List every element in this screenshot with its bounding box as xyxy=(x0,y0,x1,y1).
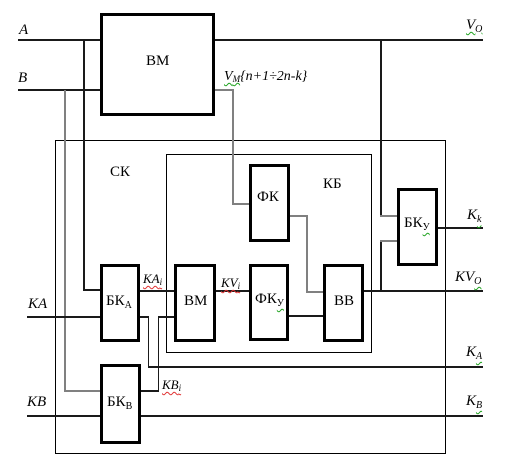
label KV left xyxy=(27,395,46,410)
label Vo xyxy=(466,18,482,33)
label VM lower xyxy=(184,294,207,309)
wire FK stub into VV (gray) xyxy=(306,291,324,293)
label KVbi xyxy=(162,378,181,391)
wire B stub into BKv (gray) xyxy=(64,390,101,392)
label KB xyxy=(323,177,342,192)
wire Vo output horizontal xyxy=(214,39,483,41)
wire FK output horizontal (gray) xyxy=(288,215,307,217)
label Kk xyxy=(467,208,481,223)
wire stub into BKu lower (gray) xyxy=(380,240,398,242)
wire KAi from BKa to VM xyxy=(140,290,175,292)
label Kv right xyxy=(466,394,482,409)
block FKu xyxy=(249,264,289,341)
label A xyxy=(19,23,28,38)
label VV xyxy=(334,294,354,309)
box KB (inner box) xyxy=(166,154,372,353)
wire B vertical drop x64 (gray) xyxy=(64,90,66,391)
label KVo xyxy=(455,270,481,285)
wire FK output vertical x306 (gray) xyxy=(306,215,308,292)
label BKu xyxy=(404,216,430,231)
box SK (outer control box) xyxy=(55,140,446,454)
label FKu xyxy=(255,292,284,307)
wire KVo junction vertical x380 lower xyxy=(380,240,382,292)
block BKa xyxy=(100,264,140,342)
wire KVo output horizontal xyxy=(362,290,483,292)
block BKv xyxy=(100,364,141,444)
block BKu xyxy=(397,188,438,266)
wire A stub into BKa xyxy=(83,289,101,291)
label BKa xyxy=(106,294,132,309)
wire VM output to FK: horizontal from BM (gray) xyxy=(214,89,233,91)
wire vertical x148 down to Ka line xyxy=(148,316,150,367)
label KVi xyxy=(221,276,240,289)
wire KA input horizontal xyxy=(27,316,101,318)
wire Ka output long horizontal xyxy=(148,366,483,368)
wire B input horizontal xyxy=(18,89,100,91)
wire A input horizontal xyxy=(18,39,100,41)
label BKv xyxy=(107,395,132,410)
label B xyxy=(18,71,27,86)
wire KVi_b vertical x158 from VM input down to BKv xyxy=(158,316,160,391)
label Ka right xyxy=(466,345,482,360)
wire KVb from BKv right edge xyxy=(140,390,159,392)
wire Vo junction vertical x380 to BKu xyxy=(380,40,382,216)
wire BKa lower output stub xyxy=(140,316,149,318)
wire VM stub into FK (gray) xyxy=(232,203,250,205)
wire KV input horizontal left xyxy=(27,415,101,417)
wire Kk output horizontal xyxy=(437,227,483,229)
wire VM to FK vertical x233 (gray) xyxy=(232,89,234,204)
wire Kv output long horizontal right xyxy=(140,415,483,417)
label SK xyxy=(110,165,130,180)
wire FKu to VV xyxy=(287,315,324,317)
wire A vertical drop x83 xyxy=(83,40,85,290)
wire into VM left at y316 xyxy=(158,316,175,318)
label BM xyxy=(146,54,169,69)
block FK xyxy=(249,164,290,242)
wire KVi from VM to FKu xyxy=(215,290,250,292)
label FK xyxy=(257,190,279,205)
label KA xyxy=(28,297,47,312)
block VM (lower) xyxy=(174,264,216,342)
block VV xyxy=(323,264,364,342)
label VM{n+1-2n-k} xyxy=(224,70,307,84)
block BM (top multiplier) xyxy=(100,13,215,116)
label KAi xyxy=(143,272,162,285)
wire stub into BKu upper (gray) xyxy=(380,215,398,217)
